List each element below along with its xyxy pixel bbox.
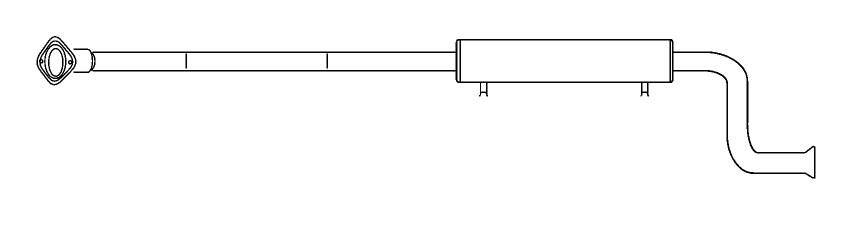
wire: right outlet S-pipe lower/inner edge (671, 71, 805, 173)
node: muffler left end seam (459, 40, 461, 82)
node: muffler body (457, 40, 673, 83)
node: weld seam tick 2 on pipe (326, 53, 328, 68)
node: tail pipe flared tip (805, 147, 815, 179)
node: muffler right end seam (669, 40, 671, 82)
node: tail pipe end face line (814, 147, 816, 179)
wire: left inlet pipe (straight tube to muffler) (93, 52, 459, 71)
node: sleeve end cap arc (88, 49, 93, 72)
node: flange bolt hole right (69, 61, 72, 64)
node: sleeve body (74, 49, 88, 72)
node: flange bolt hole left (40, 60, 43, 63)
node: hanger bracket 2 under muffler (640, 82, 649, 95)
node: flange opening inner ellipse (49, 49, 63, 77)
node: weld seam tick 1 on pipe (185, 53, 187, 68)
node: flange opening outer ellipse (45, 45, 66, 79)
node: flange inner thickness outline (40, 41, 73, 81)
node: flange outer plate (37, 37, 76, 85)
node: hanger bracket 1 under muffler (479, 82, 488, 95)
wire: right outlet S-pipe upper/outer edge (671, 52, 805, 153)
node: pipe end flare arc at flange side (84, 52, 95, 71)
